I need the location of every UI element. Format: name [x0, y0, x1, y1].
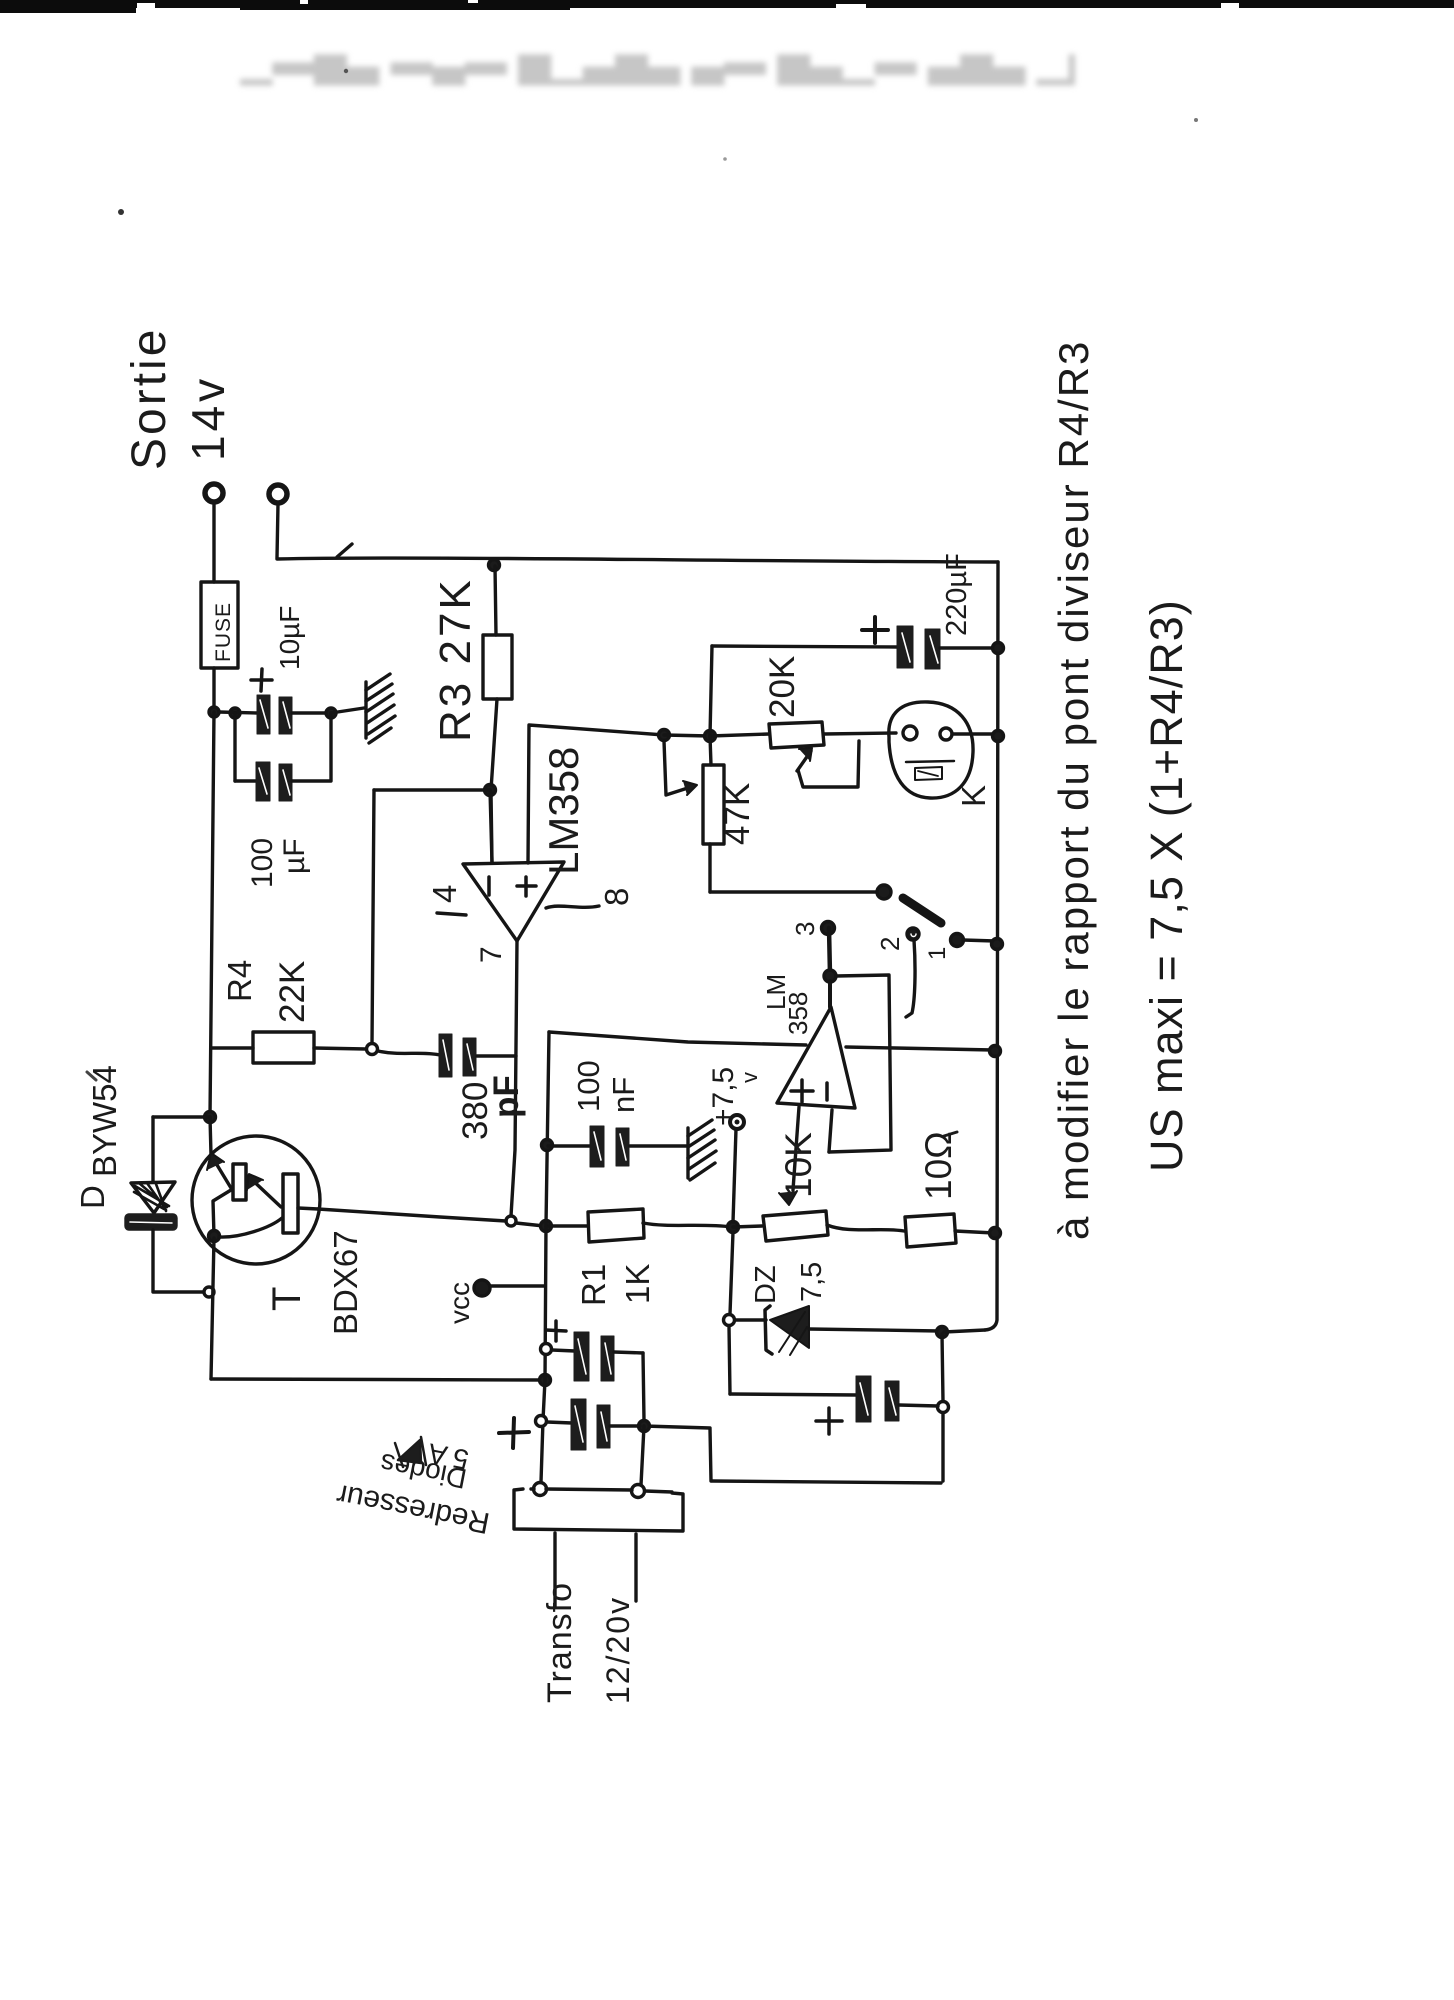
node C: [326, 708, 336, 718]
wire R4 left to rail: [211, 1046, 253, 1049]
wire inv input up (drawn above) joins node D: [491, 792, 492, 863]
wire vcc to rail: [490, 1284, 544, 1287]
wire to C2: [235, 779, 257, 782]
U1B minus sign: [825, 1083, 829, 1100]
node C4 right: [639, 1421, 650, 1432]
svg-text:2: 2: [875, 937, 905, 951]
svg-text:FUSE: FUSE: [212, 602, 235, 662]
transformer lead 2: [634, 1534, 637, 1601]
node G: [705, 731, 716, 742]
speck mid top: [723, 157, 727, 161]
wire right rail: [985, 562, 998, 1330]
svg-text:220µF: 220µF: [941, 553, 973, 636]
wire node B down: [233, 713, 236, 781]
potentiometer P3 10K: [763, 1211, 828, 1241]
capacitor C5 plates: [856, 1376, 899, 1422]
svg-text:+7,5: +7,5: [707, 1067, 740, 1126]
capacitor C8 100nF plates: [590, 1126, 629, 1167]
wire corner to C4 node: [644, 1426, 710, 1428]
Q1 arrow head collector: [207, 1153, 224, 1170]
node D: [485, 785, 496, 796]
wire P2 to meter: [824, 733, 896, 734]
Q1 arrow to bar2: [248, 1176, 281, 1207]
capacitor C4 plates: [571, 1399, 610, 1450]
feedback to inv input: [829, 1110, 832, 1152]
node meter rail: [993, 731, 1004, 742]
wire node O down: [942, 1334, 943, 1401]
wire bottom left horizontal: [211, 1379, 545, 1380]
wire emitter down: [211, 1238, 214, 1379]
speck left margin: [118, 209, 124, 215]
rail joins node O: [944, 1330, 985, 1332]
resistor R4: [253, 1032, 314, 1063]
capacitor C3 plates: [574, 1332, 614, 1381]
resistor R2 10ohm: [905, 1214, 956, 1247]
node rail y1051: [990, 1046, 1001, 1057]
node +7.5 terminal: [730, 1115, 744, 1129]
wire node J down: [730, 1232, 733, 1314]
wire node I to R1: [546, 1224, 587, 1227]
wire 220uF right to rail: [940, 646, 995, 649]
diode D1 cathode bar: [126, 1215, 176, 1229]
wire node N to DZ: [735, 1318, 766, 1321]
U1B noninv lead to wiper: [793, 1107, 799, 1190]
scanner top edge bar: [0, 0, 1454, 13]
wire to C4: [547, 1422, 572, 1423]
node U1B out: [824, 970, 836, 982]
svg-text:pF: pF: [487, 1075, 526, 1118]
wire BYW54 anode down: [151, 1117, 154, 1182]
wire meter to rail: [952, 732, 995, 735]
wire node J to P3 10K: [733, 1226, 762, 1227]
meter M1 terminal left: [903, 726, 917, 740]
svg-text:vcc: vcc: [444, 1282, 475, 1324]
wire node P down corner: [941, 1413, 944, 1481]
wire node to C1: [219, 712, 258, 713]
plus sign C6: [862, 617, 888, 643]
plus sign C5: [816, 1408, 842, 1434]
speck left low: [87, 1072, 96, 1080]
P2 wiper arrow: [797, 751, 811, 771]
wire D1 down: [151, 1230, 154, 1291]
wire transistor base to node H: [318, 1209, 506, 1221]
wire rail to opamp U1B: [549, 1032, 806, 1045]
wire R1 to node J: [643, 1223, 732, 1227]
node 220uF rail: [993, 643, 1004, 654]
wire corner up: [710, 1429, 711, 1481]
plus sign C1: [251, 669, 272, 691]
wire DZ to node O: [809, 1329, 940, 1331]
node B: [230, 708, 240, 718]
wire node E to C7: [378, 1051, 440, 1055]
wire 220uF left branch corner: [710, 646, 712, 736]
terminal output -: [269, 485, 287, 503]
capacitor C2 100uF plates: [256, 762, 292, 801]
bar notches: [137, 0, 1239, 9]
resistor R3: [483, 635, 512, 699]
P2 wiper loop: [798, 741, 859, 787]
wire rail to C8: [548, 1144, 591, 1147]
wire R4 to node E: [314, 1048, 366, 1049]
wire 47K top lead: [710, 736, 711, 765]
svg-text:10Ω: 10Ω: [918, 1131, 959, 1200]
node J: [728, 1222, 739, 1233]
wire left rail down: [210, 712, 214, 1117]
potentiometer P2 20K: [769, 722, 824, 748]
wire C4 right: [610, 1424, 640, 1427]
diode D1 BYW54 cone: [131, 1182, 175, 1213]
feedback wire right: [829, 975, 891, 1152]
wire contact1 to rail: [963, 940, 995, 941]
fuse F1: [201, 582, 238, 668]
resistor R1: [588, 1209, 644, 1242]
svg-text:à modifier le rapport du pont: à modifier le rapport du pont diviseur R…: [1050, 340, 1097, 1240]
node P open: [938, 1402, 949, 1413]
svg-text:R4: R4: [221, 960, 258, 1002]
node F: [659, 730, 670, 741]
wire noninv input up and right: [528, 725, 664, 863]
node K rail: [990, 1228, 1001, 1239]
wire to C5: [730, 1394, 857, 1395]
wire R2 to right rail: [955, 1231, 994, 1233]
wire node H to node I: [516, 1223, 544, 1226]
node R3 top: [489, 560, 500, 571]
node contact1 rail: [992, 939, 1003, 950]
wire U1B to rail y1048: [846, 1047, 993, 1050]
wire contact2 stub: [906, 940, 915, 1017]
meter M1 coil: [906, 761, 954, 762]
svg-text:Sortie: Sortie: [123, 327, 176, 470]
node C3 open: [541, 1344, 552, 1355]
wire C1 to node C: [292, 711, 330, 714]
node I: [541, 1221, 552, 1232]
svg-text:3: 3: [790, 922, 820, 936]
U1B plus sign: [791, 1080, 813, 1102]
Q1 base bar 1: [233, 1164, 246, 1200]
Q1 emitter diag 2: [219, 1218, 282, 1237]
node N open: [724, 1315, 735, 1326]
svg-text:US maxi = 7,5 X (1+R4/R3): US maxi = 7,5 X (1+R4/R3): [1141, 599, 1192, 1172]
meter M1 body: [889, 702, 973, 798]
svg-text:K: K: [955, 785, 992, 807]
wire terminal2 down: [277, 504, 278, 558]
speck top: [344, 69, 348, 73]
wire to C3: [552, 1350, 575, 1351]
svg-text:47K: 47K: [718, 783, 757, 845]
switch common node: [877, 885, 891, 899]
wire node G to P2 20K: [710, 734, 769, 736]
U1B output lead: [828, 981, 832, 1007]
svg-text:20K: 20K: [763, 656, 802, 718]
node O: [937, 1327, 948, 1338]
wire node F to node G: [664, 735, 710, 736]
wire +7.5 down to node J: [733, 1129, 736, 1222]
wire fuse to node: [212, 668, 215, 712]
potentiometer P1 47K: [703, 765, 724, 844]
arrowhead 10K wiper: [779, 1191, 797, 1205]
transformer TR1 box: [514, 1489, 683, 1531]
vcc terminal: [474, 1280, 490, 1296]
meter M1 terminal right: [940, 728, 952, 740]
tick mark on rail: [337, 544, 352, 557]
svg-text:8: 8: [598, 888, 635, 906]
Q1 emitter diag 1: [213, 1190, 231, 1236]
arrowhead wiper 47K: [683, 781, 697, 795]
svg-text:12/20v: 12/20v: [600, 1596, 636, 1704]
wire node to BYW54: [153, 1115, 210, 1118]
wire C8 to ground: [630, 1144, 686, 1147]
svg-text:22K: 22K: [273, 961, 312, 1023]
Q1 collector lead with arrow: [210, 1117, 211, 1155]
capacitor C6 220uF plates: [897, 626, 940, 669]
switch contact 3: [822, 922, 835, 935]
svg-text:R3 27K: R3 27K: [431, 577, 480, 742]
wire terminal1 to fuse: [212, 503, 215, 582]
svg-text:7: 7: [475, 946, 508, 963]
wiper wire 47K from node F: [664, 741, 694, 795]
svg-text:LM358: LM358: [540, 747, 587, 875]
transistor Q1 BDX67 circle: [192, 1136, 320, 1264]
node L: [540, 1375, 551, 1386]
wire C7 to output line: [477, 1054, 516, 1057]
svg-text:µF: µF: [278, 838, 311, 874]
wire node N down to C5: [729, 1326, 730, 1394]
wire R3 to node D: [491, 699, 497, 790]
node A: [209, 707, 219, 717]
zener DZ bar: [765, 1306, 772, 1354]
wire down to R4 node: [372, 790, 374, 1044]
svg-text:1K: 1K: [619, 1264, 656, 1304]
wire rail to R3: [495, 566, 496, 635]
svg-text:Redresseur: Redresseur: [334, 1478, 493, 1540]
svg-text:v: v: [737, 1072, 762, 1083]
svg-text:Transfo: Transfo: [541, 1582, 579, 1703]
op-amp U1A triangle: [463, 862, 564, 941]
wire C5 to node P: [899, 1405, 938, 1406]
wire top rail: [277, 558, 998, 562]
node M 100nF: [542, 1140, 553, 1151]
zener DZ triangle: [770, 1306, 809, 1348]
plus sign C4: [499, 1418, 529, 1448]
U1A minus sign: [487, 877, 491, 895]
node Q1 emitter: [209, 1231, 220, 1242]
node T1 bottom open: [204, 1287, 214, 1297]
wire node C to ground: [331, 708, 364, 713]
svg-text:100: 100: [246, 838, 279, 888]
wire to switch common: [710, 890, 878, 893]
switch contact 2: [907, 928, 919, 940]
node H open: [506, 1216, 516, 1226]
U1A plus sign: [517, 877, 536, 896]
wire 47K bottom lead: [708, 844, 711, 892]
node E R4: [367, 1044, 378, 1055]
capacitor C1 10uF plates: [257, 695, 292, 734]
switch contact 1: [951, 934, 964, 947]
svg-text:nF: nF: [606, 1077, 641, 1113]
wire C3 right: [614, 1352, 643, 1353]
speck top right: [1194, 118, 1198, 122]
wire 220uF left: [712, 646, 897, 647]
ground G2: [686, 1128, 689, 1178]
wire contact3 to U1B output: [829, 928, 830, 975]
ghost print-through band: [240, 36, 1075, 102]
wire D1 to emitter rail: [153, 1290, 203, 1293]
wire C2 to node C branch: [292, 713, 331, 781]
wire node D left: [374, 788, 490, 791]
transformer lead 1: [553, 1533, 556, 1607]
svg-text:R1: R1: [575, 1264, 612, 1306]
svg-text:100: 100: [571, 1060, 606, 1112]
mid rail x546: [541, 1032, 549, 1482]
wire C3C4 node down to terminal2: [641, 1426, 644, 1485]
svg-text:10K: 10K: [778, 1132, 819, 1198]
svg-text:BDX67: BDX67: [327, 1230, 364, 1335]
pin8 stub: [546, 906, 599, 908]
svg-text:T: T: [265, 1287, 309, 1311]
dash after 10ohm: [944, 1132, 957, 1136]
node C4 open: [536, 1416, 547, 1427]
svg-text:1: 1: [924, 947, 951, 960]
svg-text:BYW54: BYW54: [86, 1065, 123, 1177]
svg-text:10µF: 10µF: [274, 606, 305, 670]
pin4 stub: [437, 913, 466, 915]
transformer TR1 primary terminal 2: [632, 1485, 645, 1498]
svg-text:D: D: [74, 1185, 111, 1209]
wire bottom return: [712, 1481, 941, 1483]
transformer TR1 primary terminal 1: [534, 1483, 547, 1496]
svg-text:7,5: 7,5: [796, 1262, 828, 1302]
wire C3 down to C4 node: [643, 1353, 644, 1420]
ground G1: [364, 682, 367, 738]
wire P3 to R2 10ohm: [827, 1225, 904, 1231]
svg-text:DZ: DZ: [750, 1265, 782, 1304]
node T1 top: [205, 1112, 216, 1123]
op-amp U1B triangle: [777, 1007, 855, 1108]
switch blade: [903, 898, 941, 923]
svg-text:5 A: 5 A: [425, 1437, 471, 1475]
Q1 base2 out: [298, 1208, 318, 1209]
Q1 base bar 2: [283, 1174, 298, 1233]
svg-text:14v: 14v: [182, 375, 234, 461]
wire U1A output down: [511, 941, 517, 1216]
svg-text:358: 358: [783, 992, 813, 1035]
wire node D to opamp inv input: [490, 790, 492, 863]
terminal output +: [205, 484, 223, 502]
capacitor C7 380pF plates: [439, 1034, 476, 1077]
svg-text:4: 4: [426, 885, 463, 903]
small diode annotation 5A: [395, 1437, 426, 1467]
plus sign C3: [546, 1321, 566, 1341]
